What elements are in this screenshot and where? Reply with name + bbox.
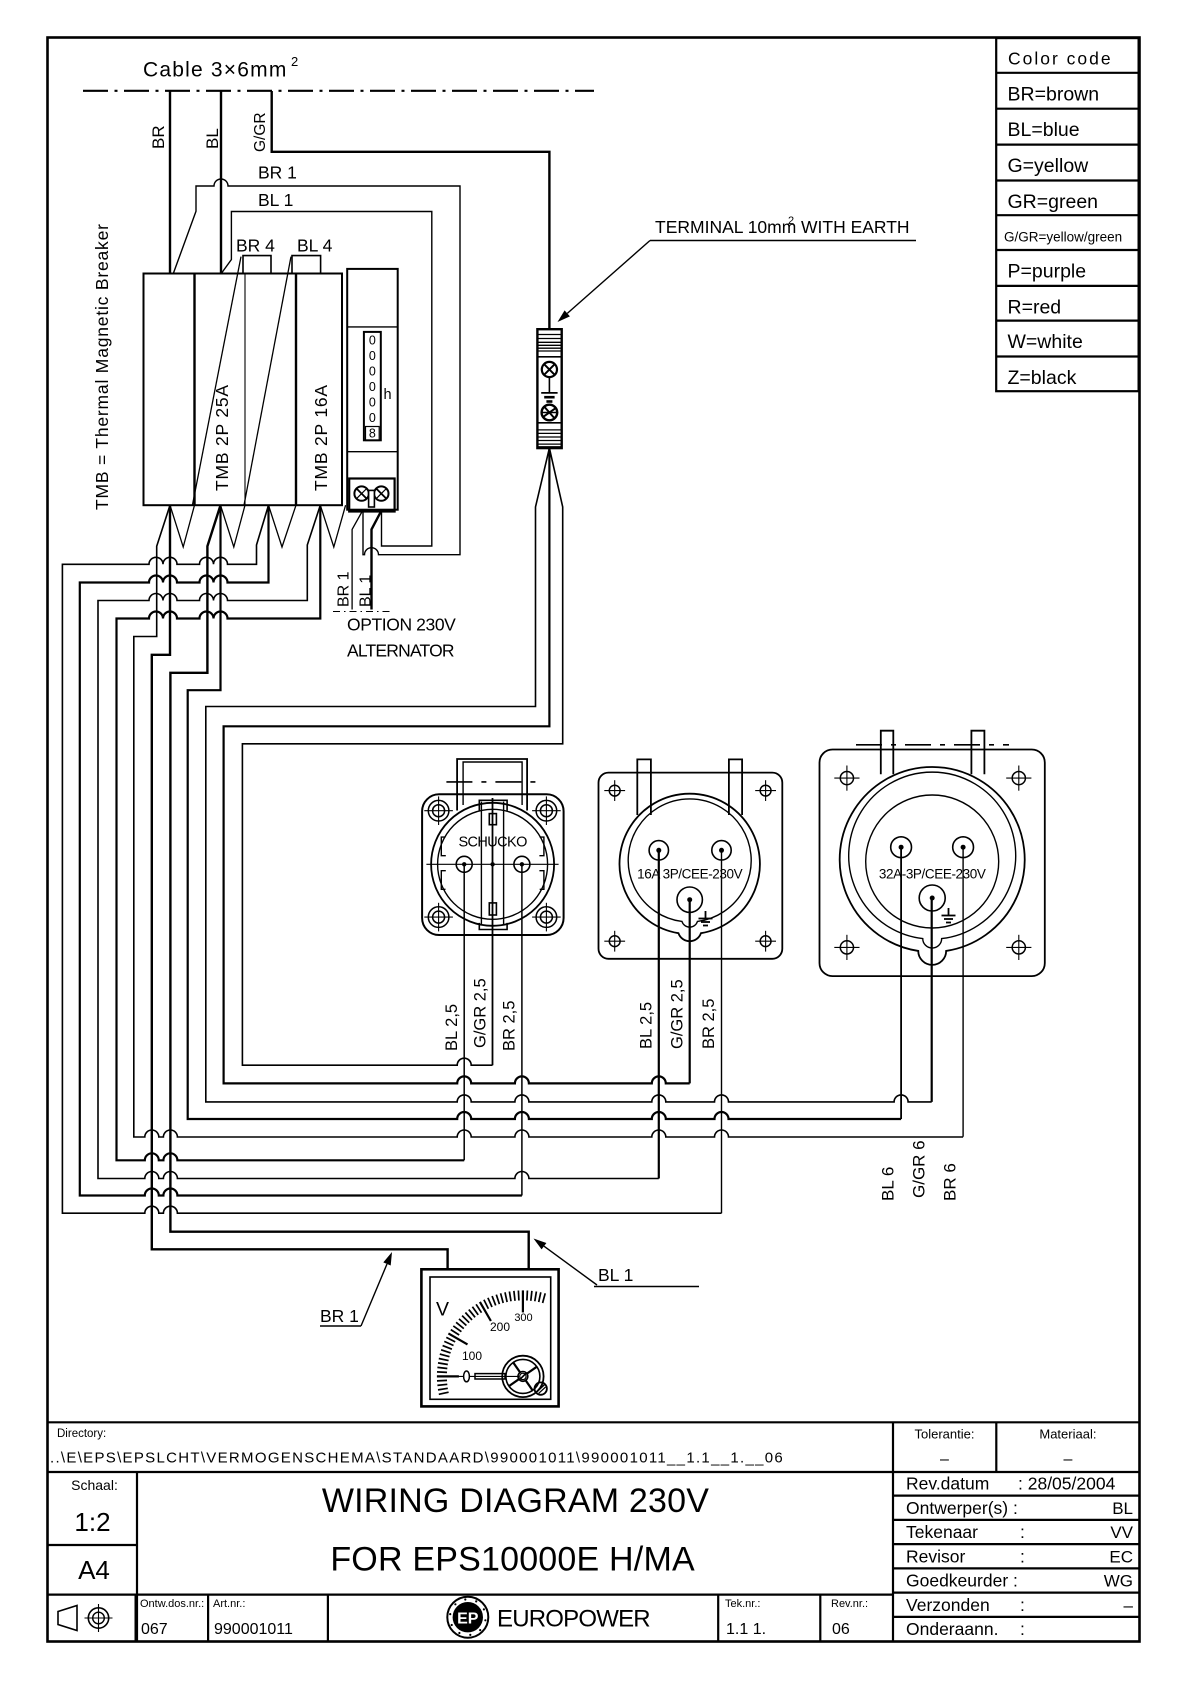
svg-text:Materiaal:: Materiaal: — [1039, 1427, 1096, 1442]
breaker output V-link T1 — [170, 505, 195, 547]
16A socket mounting tab left — [637, 759, 651, 815]
SCHUCKO flange — [422, 794, 563, 935]
breaker output V-link T3 — [269, 505, 297, 547]
svg-text:G/GR 2,5: G/GR 2,5 — [472, 978, 490, 1048]
svg-text:16A 3P/CEE-230V: 16A 3P/CEE-230V — [637, 867, 742, 882]
color code table — [996, 38, 1138, 391]
32A mounting hole BR — [1012, 941, 1025, 954]
wire BR 4 diagonal through breaker — [192, 257, 241, 506]
wire G/GR 2,5 SCHUCKO — [492, 798, 494, 1065]
32A mounting hole TR — [1012, 772, 1025, 785]
svg-text:0: 0 — [369, 411, 376, 425]
wire BR 6 32A — [962, 849, 964, 1137]
svg-text:BR 1: BR 1 — [258, 163, 297, 183]
16A mounting hole BR — [760, 936, 771, 947]
16A pin right — [712, 841, 731, 860]
svg-text:0: 0 — [369, 380, 376, 394]
svg-text:P=purple: P=purple — [1008, 261, 1087, 283]
svg-text:WG: WG — [1104, 1572, 1133, 1591]
svg-text:Tek.nr.:: Tek.nr.: — [725, 1598, 760, 1610]
svg-text:Onderaann.: Onderaann. — [906, 1619, 998, 1639]
32A socket mounting tab right — [971, 731, 984, 775]
svg-text:BR 2,5: BR 2,5 — [501, 1001, 519, 1051]
32A inner circle — [866, 795, 999, 928]
wire W2: T3 to SCHUCKO BR pin — [80, 505, 522, 1195]
svg-text:EP: EP — [457, 1611, 479, 1628]
svg-text:: 28/05/2004: : 28/05/2004 — [1018, 1474, 1116, 1494]
terminal block 10mm2 with earth — [537, 329, 561, 448]
svg-text:G/GR 6: G/GR 6 — [910, 1140, 929, 1198]
SCHUCKO horizontal centreline — [426, 863, 558, 865]
16A earth symbol — [705, 911, 707, 919]
svg-text:Tolerantie:: Tolerantie: — [915, 1427, 975, 1442]
svg-text:BR 1: BR 1 — [336, 571, 353, 607]
SCHUCKO side contact left — [441, 837, 446, 856]
hour meter counter window — [364, 332, 381, 440]
svg-text:TMB 2P 25A: TMB 2P 25A — [212, 384, 232, 491]
svg-text:–: – — [940, 1451, 949, 1468]
SCHUCKO outer circle — [431, 803, 554, 926]
svg-text:100: 100 — [462, 1349, 482, 1363]
hour meter terminal block — [349, 479, 394, 512]
svg-text:200: 200 — [490, 1320, 510, 1334]
svg-text:Rev.nr.:: Rev.nr.: — [831, 1598, 868, 1610]
wire W5: T1 to 32A socket BR pin — [134, 505, 963, 1137]
hour meter module — [347, 269, 398, 510]
svg-text:R=red: R=red — [1008, 296, 1062, 318]
breaker output V-link T2 — [221, 505, 246, 547]
voltmeter zero mark 0 — [464, 1371, 470, 1382]
svg-text:300: 300 — [514, 1312, 532, 1324]
wire BL (mains blue) — [220, 91, 222, 274]
svg-text:Ontwerper(s) :: Ontwerper(s) : — [906, 1498, 1018, 1518]
wire BR 2,5 16A — [721, 852, 723, 1213]
breaker divider 3 — [295, 274, 297, 506]
svg-text:1.1 1.: 1.1 1. — [726, 1621, 766, 1638]
voltmeter adjustment knob — [502, 1356, 543, 1397]
svg-text:2: 2 — [788, 215, 794, 227]
svg-text:TERMINAL 10mm: TERMINAL 10mm — [655, 217, 796, 237]
wire BL 6 32A — [900, 849, 902, 1119]
earth wire E3: terminal to SCHUCKO earth — [242, 448, 562, 1065]
svg-text:Directory:: Directory: — [57, 1428, 106, 1440]
SCHUCKO pin left — [456, 856, 472, 872]
terminal screw symbol bottom — [542, 405, 558, 421]
voltmeter screw — [535, 1382, 547, 1394]
svg-text:G/GR 2,5: G/GR 2,5 — [669, 979, 687, 1049]
32A earth symbol — [948, 908, 950, 916]
svg-text:BR: BR — [149, 125, 168, 149]
svg-text:8: 8 — [369, 427, 376, 441]
first angle projection symbol — [58, 1606, 77, 1631]
svg-text:2: 2 — [291, 54, 298, 69]
SCHUCKO mounting hole BL — [428, 907, 449, 928]
wire W1: T3 to 16A socket BR pin — [62, 505, 721, 1213]
svg-text:G/GR=yellow/green: G/GR=yellow/green — [1004, 230, 1122, 245]
svg-text:ALTERNATOR: ALTERNATOR — [347, 641, 454, 661]
svg-text:BL 2,5: BL 2,5 — [443, 1004, 461, 1051]
SCHUCKO mounting hole TL — [428, 800, 449, 821]
wire BR 2,5 SCHUCKO — [521, 866, 523, 1196]
wire W6: T1 BR 1 feed to voltmeter — [152, 505, 448, 1269]
32A outer circle with keyway — [840, 767, 1025, 965]
svg-text:Color code: Color code — [1008, 49, 1113, 69]
title block frame — [48, 1421, 1140, 1423]
wire G/GR 6 32A — [931, 900, 933, 1102]
svg-text::: : — [1020, 1522, 1025, 1542]
revision table right column — [893, 1494, 1140, 1496]
32A pin right — [953, 837, 974, 858]
svg-text:32A-3P/CEE-230V: 32A-3P/CEE-230V — [879, 867, 986, 882]
svg-text:0: 0 — [369, 349, 376, 363]
option cut dash-dot line — [333, 611, 391, 613]
SCHUCKO side contact right — [539, 837, 544, 856]
wire W8: T2 to 32A socket BL pin — [188, 505, 901, 1119]
svg-text:BL 4: BL 4 — [297, 236, 333, 256]
svg-text:Tekenaar: Tekenaar — [906, 1522, 978, 1542]
svg-text:067: 067 — [141, 1621, 168, 1638]
terminal block tab — [369, 490, 375, 507]
32A earth pin — [919, 885, 945, 911]
16A earth pin — [677, 887, 702, 912]
16A inner circle with keyway — [628, 799, 751, 927]
svg-text:..\E\EPS\EPSLCHT\VERMOGENSCHEM: ..\E\EPS\EPSLCHT\VERMOGENSCHEMA\STANDAAR… — [50, 1450, 784, 1467]
32A socket flange — [820, 750, 1045, 977]
terminal earth symbol — [548, 377, 550, 393]
terminal screw left — [354, 486, 368, 500]
wire W7: T2 BL 1 feed to voltmeter — [170, 505, 528, 1269]
cable boundary dash-dot line — [83, 90, 594, 92]
svg-text:BR 4: BR 4 — [236, 236, 275, 256]
svg-text:OPTION 230V: OPTION 230V — [347, 615, 456, 635]
16A pin left — [649, 841, 668, 860]
wire BL 1 from breaker top to hour-meter block — [222, 212, 432, 547]
16A mounting hole TL — [609, 785, 620, 796]
SCHUCKO top cap — [479, 800, 507, 811]
SCHUCKO inner circle — [438, 809, 548, 919]
voltmeter scale ticks — [439, 1392, 449, 1394]
svg-text:EC: EC — [1109, 1547, 1133, 1566]
16A mounting hole BL — [609, 936, 620, 947]
breaker output V-link T4 — [320, 505, 345, 547]
wire W3: T4 to 16A socket BL pin — [98, 505, 659, 1178]
SCHUCKO bottom earth slot — [489, 903, 496, 915]
svg-text::: : — [1020, 1619, 1025, 1639]
earth wire E2: terminal to 16A earth pin — [224, 448, 690, 1083]
32A socket mounting tab left — [881, 731, 894, 775]
svg-text::: : — [1020, 1546, 1025, 1566]
svg-text:TMB = Thermal Magnetic Breaker: TMB = Thermal Magnetic Breaker — [92, 223, 112, 510]
wire BL 2,5 SCHUCKO — [463, 866, 465, 1160]
svg-text:Rev.datum: Rev.datum — [906, 1474, 989, 1494]
wire G/GR (mains yellow/green) to earth terminal — [272, 91, 550, 329]
svg-text:BL 2,5: BL 2,5 — [638, 1002, 656, 1049]
svg-text:BL 6: BL 6 — [879, 1167, 898, 1201]
svg-text:BL=blue: BL=blue — [1008, 119, 1080, 141]
svg-text:Z=black: Z=black — [1008, 367, 1077, 389]
terminal screw symbol top — [542, 362, 557, 377]
title block bottom row — [48, 1593, 894, 1595]
svg-text:BL: BL — [1112, 1499, 1133, 1518]
terminal screw right — [374, 486, 388, 500]
svg-text:1:2: 1:2 — [74, 1507, 110, 1537]
schaal cell — [136, 1472, 138, 1642]
wire BL 1 option stub to alternator — [372, 511, 382, 610]
SCHUCKO mounting hole TR — [536, 800, 557, 821]
wire BR 1 from breaker top to hour-meter block, hop over BL — [173, 179, 460, 555]
svg-text:BL 1: BL 1 — [258, 190, 293, 210]
breaker divider 2 (thin) — [244, 274, 246, 506]
svg-text:A4: A4 — [78, 1555, 110, 1585]
wire BR (mains brown) — [169, 91, 171, 274]
svg-text:BR 6: BR 6 — [941, 1163, 960, 1201]
svg-text:Schaal:: Schaal: — [71, 1477, 118, 1493]
SCHUCKO top earth slot — [489, 814, 496, 825]
SCHUCKO centre point — [490, 862, 494, 866]
svg-text:V: V — [436, 1299, 449, 1321]
wire BL 4 diagonal through breaker — [244, 257, 291, 506]
32A pin left — [891, 837, 912, 858]
svg-text:WIRING DIAGRAM 230V: WIRING DIAGRAM 230V — [322, 1482, 709, 1520]
16A outer circle with keyway — [620, 794, 760, 942]
voltmeter needle — [437, 1375, 519, 1377]
32A centreline dash-dot — [856, 744, 1009, 746]
wire G/GR 2,5 16A — [689, 901, 691, 1083]
svg-text:FOR EPS10000E H/MA: FOR EPS10000E H/MA — [330, 1541, 695, 1579]
svg-text:G/GR: G/GR — [252, 112, 269, 152]
svg-text:Revisor: Revisor — [906, 1546, 965, 1566]
svg-text:VV: VV — [1110, 1523, 1133, 1542]
wire W4: T4 to SCHUCKO BL pin — [117, 505, 465, 1160]
SCHUCKO pin right — [514, 856, 530, 872]
svg-text:990001011: 990001011 — [214, 1621, 293, 1638]
earth wire E1: terminal to 32A earth pin — [206, 448, 932, 1102]
svg-text:BR 1: BR 1 — [320, 1306, 359, 1326]
svg-text:–: – — [1063, 1451, 1072, 1468]
SCHUCKO centreline dash-dot — [446, 781, 540, 783]
svg-text:06: 06 — [832, 1621, 850, 1638]
SCHUCKO earth strip verticals — [480, 802, 482, 925]
svg-text:G=yellow: G=yellow — [1008, 155, 1090, 177]
svg-text:Art.nr.:: Art.nr.: — [213, 1598, 245, 1610]
SCHUCKO socket cable entry box — [457, 759, 527, 811]
svg-text:–: – — [1124, 1596, 1134, 1615]
16A socket flange — [599, 773, 783, 959]
16A socket mounting tab right — [729, 759, 742, 815]
svg-text:W=white: W=white — [1008, 331, 1083, 353]
stub terminal BR 4 — [243, 256, 271, 274]
svg-text:0: 0 — [369, 365, 376, 379]
breaker box TMB — [144, 274, 343, 506]
svg-text:Goedkeurder :: Goedkeurder : — [906, 1571, 1018, 1591]
16A mounting hole TR — [760, 785, 771, 796]
SCHUCKO bottom cap — [479, 923, 507, 930]
svg-text::: : — [1020, 1595, 1025, 1615]
svg-text:Cable 3×6mm: Cable 3×6mm — [143, 59, 288, 82]
svg-text:BR 2,5: BR 2,5 — [700, 999, 718, 1049]
32A middle circle with keyway — [849, 772, 1016, 948]
wire BR 1 option stub to alternator — [352, 511, 362, 610]
svg-text:h: h — [384, 387, 392, 403]
svg-text:Verzonden: Verzonden — [906, 1595, 990, 1615]
32A mounting hole BL — [840, 941, 853, 954]
EUROPOWER logo — [447, 1597, 488, 1638]
32A mounting hole TL — [840, 772, 853, 785]
svg-text:0: 0 — [369, 334, 376, 348]
svg-text:EUROPOWER: EUROPOWER — [497, 1606, 650, 1633]
svg-text:BL: BL — [203, 128, 222, 149]
svg-text:0: 0 — [369, 396, 376, 410]
svg-text:Ontw.dos.nr.:: Ontw.dos.nr.: — [140, 1598, 204, 1610]
voltmeter V1 case — [421, 1269, 558, 1406]
breaker divider 1 — [193, 274, 195, 506]
svg-text:WITH EARTH: WITH EARTH — [801, 217, 910, 237]
wire BL 2,5 16A — [658, 852, 660, 1179]
svg-text:BR=brown: BR=brown — [1008, 83, 1100, 105]
svg-text:BL 1: BL 1 — [358, 575, 375, 607]
svg-text:TMB 2P 16A: TMB 2P 16A — [311, 384, 331, 491]
svg-text:BL 1: BL 1 — [598, 1265, 633, 1285]
stub terminal BL 4 — [292, 256, 321, 274]
SCHUCKO mounting hole BR — [536, 907, 557, 928]
svg-text:GR=green: GR=green — [1008, 191, 1099, 213]
